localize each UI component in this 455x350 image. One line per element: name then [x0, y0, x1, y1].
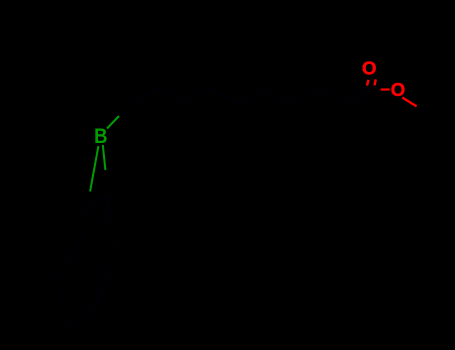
bond O-CH3 (red half)	[402, 98, 416, 107]
bond C=O stroke right (red half)	[375, 79, 376, 85]
bond B-C1 right (green half)	[103, 145, 106, 170]
svg-text:O: O	[362, 58, 376, 79]
svg-text:B: B	[94, 125, 107, 148]
wire: methyl bond from ester O (black half)	[416, 106, 430, 115]
bond C=O stroke left (red half)	[367, 80, 369, 86]
bond C-O ester (red half)	[381, 88, 390, 90]
bond B-C5 left (green)	[90, 146, 98, 191]
bond B-chain (green half)	[107, 116, 119, 129]
wire: 9-BBN bicyclononane ring (black skeleton)	[60, 196, 108, 330]
wire: carbon chain C1-C9 (black skeleton)	[131, 89, 371, 104]
